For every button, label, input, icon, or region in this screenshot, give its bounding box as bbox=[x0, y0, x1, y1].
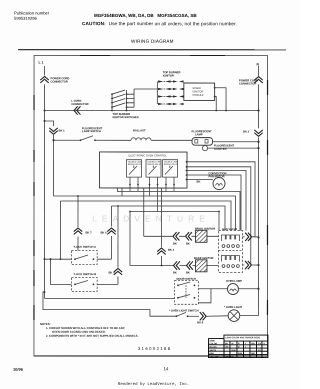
svg-text:* OVEN LIGHT: * OVEN LIGHT bbox=[224, 305, 243, 309]
svg-text:BR: BR bbox=[251, 353, 255, 355]
svg-text:BK 7: BK 7 bbox=[85, 230, 92, 234]
svg-text:OVEN LAMP: OVEN LAMP bbox=[226, 279, 242, 283]
svg-text:LEADVENTURE: LEADVENTURE bbox=[92, 213, 210, 223]
svg-text:R-W: R-W bbox=[238, 353, 242, 355]
svg-text:W: W bbox=[231, 343, 233, 345]
svg-text:Rendered by LeadVenture, Inc.: Rendered by LeadVenture, Inc. bbox=[118, 382, 189, 387]
svg-text:BK 1: BK 1 bbox=[59, 128, 66, 132]
svg-text:L 1: L 1 bbox=[39, 60, 44, 64]
svg-text:RED: RED bbox=[209, 353, 214, 355]
svg-text:BLACK: BLACK bbox=[209, 346, 217, 349]
svg-text:IGNITOR SWITCHES: IGNITOR SWITCHES bbox=[113, 115, 139, 119]
svg-text:YELLOW: YELLOW bbox=[209, 356, 218, 358]
svg-text:BK: BK bbox=[225, 343, 229, 345]
svg-text:5995310296: 5995310296 bbox=[14, 16, 37, 21]
svg-text:BK: BK bbox=[186, 242, 190, 246]
svg-text:BK 3: BK 3 bbox=[168, 248, 175, 252]
svg-text:BK: BK bbox=[173, 242, 177, 246]
svg-text:WIRING DIAGRAM: WIRING DIAGRAM bbox=[131, 39, 174, 44]
svg-text:BREAK RELAY: BREAK RELAY bbox=[128, 163, 142, 166]
svg-text:COLOR: COLOR bbox=[209, 343, 217, 345]
svg-text:WHITE: WHITE bbox=[209, 350, 216, 352]
svg-text:* OVEN LIGHT SWITCH: * OVEN LIGHT SWITCH bbox=[169, 309, 199, 313]
svg-text:BK-W: BK-W bbox=[225, 356, 231, 358]
svg-text:BK 8: BK 8 bbox=[197, 320, 204, 324]
svg-text:BREAK RELAY: BREAK RELAY bbox=[148, 163, 162, 166]
svg-text:BK 6: BK 6 bbox=[100, 230, 107, 234]
svg-text:CONNECTOR: CONNECTOR bbox=[71, 102, 88, 106]
svg-text:FAN MOTOR: FAN MOTOR bbox=[209, 174, 225, 178]
svg-text:STARTER: STARTER bbox=[214, 147, 227, 151]
svg-text:14: 14 bbox=[163, 366, 168, 371]
svg-text:CONNECTOR: CONNECTOR bbox=[51, 79, 68, 83]
svg-text:ELECTRONIC OVEN CONTROL: ELECTRONIC OVEN CONTROL bbox=[129, 153, 168, 157]
svg-text:BK 4: BK 4 bbox=[108, 270, 115, 274]
svg-text:BROIL: BROIL bbox=[195, 227, 204, 231]
svg-text:*LOCK SWITCH A: *LOCK SWITCH A bbox=[73, 245, 96, 249]
svg-text:N: N bbox=[257, 63, 260, 67]
svg-text:BK 2: BK 2 bbox=[243, 130, 250, 134]
svg-text:MGF354BGWA, WB, DA, DB MGF35: MGF354BGWA, WB, DA, DB MGF354CGSA, SB bbox=[94, 13, 197, 18]
svg-text:LEAD COLOR AND TRACER CODE: LEAD COLOR AND TRACER CODE bbox=[225, 336, 260, 339]
svg-text:2. COMPONENTS WITH * IN IT ARE: 2. COMPONENTS WITH * IN IT ARE NOT SUPPL… bbox=[46, 334, 139, 338]
svg-text:BK: BK bbox=[225, 347, 229, 349]
svg-text:BR: BR bbox=[251, 343, 255, 345]
svg-text:316002188: 316002188 bbox=[138, 346, 172, 351]
svg-text:W-B: W-B bbox=[231, 350, 236, 352]
svg-text:LAMP SWITCH: LAMP SWITCH bbox=[82, 129, 101, 133]
svg-text:*LOCK SWITCH B: *LOCK SWITCH B bbox=[73, 272, 96, 276]
svg-text:MODULE: MODULE bbox=[193, 93, 204, 97]
svg-text:DOOR SWITCH: DOOR SWITCH bbox=[176, 277, 195, 281]
svg-text:LAMP: LAMP bbox=[195, 132, 203, 136]
svg-text:BK: BK bbox=[173, 271, 177, 275]
svg-text:GAS VALVE: GAS VALVE bbox=[222, 227, 237, 231]
svg-text:BK: BK bbox=[197, 180, 201, 184]
svg-text:BAKE IGNITOR: BAKE IGNITOR bbox=[194, 256, 214, 260]
svg-text:CONNECTOR: CONNECTOR bbox=[239, 82, 256, 86]
svg-text:10/96: 10/96 bbox=[13, 367, 24, 372]
svg-text:CAUTION: Use the part number: CAUTION: Use the part number on all orde… bbox=[82, 21, 237, 26]
svg-text:BREAK RELAY: BREAK RELAY bbox=[164, 163, 178, 166]
svg-text:BK: BK bbox=[186, 271, 190, 275]
svg-text:IGNITOR: IGNITOR bbox=[204, 227, 215, 231]
svg-text:BALLAST: BALLAST bbox=[133, 128, 146, 132]
svg-text:W: W bbox=[231, 356, 233, 358]
svg-text:IGNITOR: IGNITOR bbox=[163, 74, 174, 78]
